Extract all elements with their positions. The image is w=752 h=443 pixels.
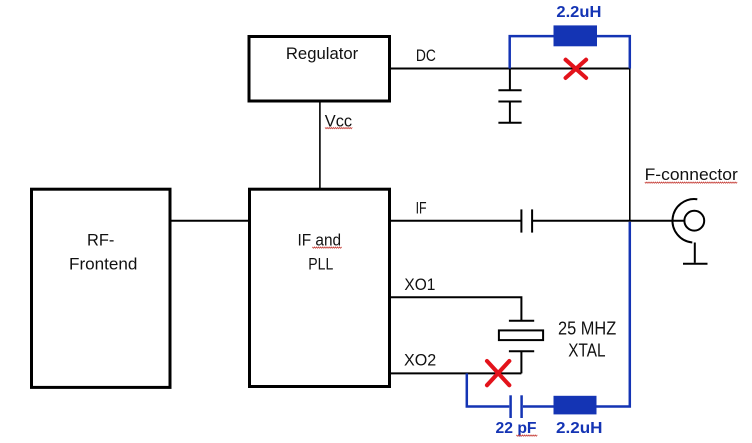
- svg-text:DC: DC: [416, 46, 436, 65]
- svg-text:22 pF: 22 pF: [496, 420, 537, 437]
- svg-text:Regulator: Regulator: [286, 44, 359, 63]
- svg-text:RF-: RF-: [87, 230, 114, 249]
- label RF-Frontend: [69, 230, 137, 273]
- svg-text:2.2uH: 2.2uH: [556, 4, 601, 21]
- connector J1 F-connector: [672, 199, 704, 263]
- svg-text:PLL: PLL: [308, 255, 333, 274]
- wire blue bottom loop right: [523, 222, 630, 407]
- svg-text:IF: IF: [416, 198, 427, 217]
- svg-text:Frontend: Frontend: [69, 255, 137, 274]
- wire DC: [391, 68, 630, 70]
- label F-connector: [645, 165, 739, 184]
- block IF and PLL: [250, 189, 390, 386]
- wire XO2: [391, 372, 521, 374]
- value label 22 pF: [496, 420, 538, 437]
- X mark removed on XO2 line: [487, 361, 509, 385]
- crystal Y1: [499, 321, 543, 374]
- wire blue top loop: [510, 36, 630, 68]
- X mark removed on DC line: [566, 60, 587, 78]
- wire blue bottom loop left: [467, 373, 510, 406]
- wire XO1: [391, 297, 521, 321]
- ground at F-connector: [683, 263, 708, 265]
- ground bar below C1: [498, 122, 521, 124]
- label 25 MHZ XTAL: [558, 319, 616, 361]
- wire IF: [391, 220, 684, 222]
- wire Vcc: [319, 102, 321, 188]
- svg-text:IF and: IF and: [298, 231, 342, 250]
- inductor L1 2.2uH: [554, 25, 598, 46]
- wire RF-Frontend to IF/PLL: [172, 220, 249, 222]
- svg-text:XO2: XO2: [404, 351, 436, 370]
- svg-text:F-connector: F-connector: [645, 165, 739, 184]
- svg-text:XO1: XO1: [404, 275, 435, 294]
- capacitor C1 on DC line: [498, 69, 521, 123]
- block Regulator: [249, 37, 390, 102]
- wire vertical DC junction to IF junction: [629, 69, 631, 221]
- capacitor C2 series on IF line: [521, 209, 532, 232]
- block RF-Frontend: [32, 189, 171, 387]
- svg-text:XTAL: XTAL: [568, 340, 605, 360]
- inductor L2 2.2uH: [554, 396, 597, 415]
- net label Vcc: [325, 112, 353, 131]
- svg-text:25 MHZ: 25 MHZ: [558, 319, 616, 339]
- svg-text:2.2uH: 2.2uH: [556, 420, 603, 437]
- capacitor C3 22pF: [511, 395, 522, 418]
- label IF and PLL: [298, 231, 342, 274]
